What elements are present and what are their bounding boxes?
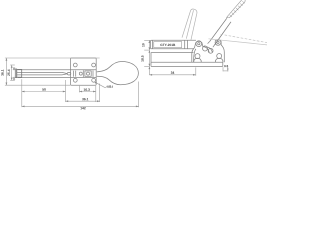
dim line 50 and 16.3: [22, 91, 66, 93]
handle shaft upper edge: [210, 19, 227, 42]
arm outer edge top: [18, 69, 97, 71]
arrowheads right view: [149, 40, 151, 43]
base left edge: [150, 53, 152, 67]
toggle link rivet right: [208, 48, 213, 53]
ext line 16.3 left: [78, 86, 80, 93]
foot arc right: [215, 58, 223, 62]
right view dim: ext tick arm top: [144, 39, 150, 41]
dim ext line bottom (plate bottom to left dim): [5, 84, 71, 86]
pivot rivet left: [79, 72, 82, 75]
foot hole right: [217, 54, 222, 59]
foot hole left: [195, 54, 200, 59]
side plate top contour left: [196, 41, 206, 47]
ext line 36.1 right (grip neck): [99, 84, 101, 103]
dim text 36.1 horizontal: [82, 98, 88, 100]
arm left end double line: [151, 40, 153, 49]
ext line 142 right: [138, 82, 140, 108]
handle shaft lower edge: [214, 22, 231, 45]
foot arc left: [194, 58, 202, 62]
phantom arm inner line: [186, 10, 193, 39]
label plate on arm: [154, 42, 182, 48]
ext line 16.3 right: [95, 86, 97, 102]
arm left end washer: [15, 69, 16, 78]
pivot hole top-right: [215, 40, 221, 46]
pivot rivet right: [87, 72, 90, 75]
base flange top line: [151, 52, 194, 54]
ext tick for 25.4 top: [10, 64, 15, 66]
slot end eye: [67, 72, 71, 75]
phantom arm up (open position): [182, 9, 197, 40]
pivot pin top-right: [217, 41, 219, 43]
grip ribs: [230, 1, 245, 17]
hole callout 4-dia5.4: [106, 85, 112, 87]
arm left end nut: [17, 69, 22, 77]
dim text 18.5 vertical: [141, 56, 143, 62]
phantom handle edge 1: [209, 39, 268, 45]
base plate (top view): [71, 58, 97, 85]
ext line 50 right / 36.1 left: [65, 80, 67, 102]
arrowheads left view: [6, 58, 8, 61]
arm outer edge bottom: [18, 77, 97, 79]
handle grip (top view oval): [97, 62, 139, 85]
right view vertical dim line + 34 dim line: [149, 40, 195, 75]
toggle link band: [203, 47, 212, 53]
vertical dim 25.4 line: [11, 65, 13, 80]
vertical dim 36.1 line: [5, 58, 7, 85]
mounting hole top-right: [92, 63, 96, 67]
ext tick bar width bottom: [13, 77, 16, 79]
phantom handle edge 2 dashed: [221, 34, 268, 42]
dim text 142: [80, 107, 85, 109]
dim line 16.3: [79, 91, 95, 93]
arm slot line top: [17, 72, 68, 73]
dim 34: ext right: [195, 67, 197, 75]
base right edge: [222, 62, 224, 66]
leader 4-d5.4: [94, 82, 106, 88]
pivot pin lines: [82, 70, 84, 77]
cross pin left pair: [73, 71, 75, 77]
dim text 10 vertical: [142, 43, 144, 46]
mounting hole top-left: [73, 63, 77, 67]
dim text 25.4 vertical: [8, 70, 10, 76]
handle grip: [226, 0, 245, 19]
dim text 50: [42, 88, 45, 90]
dim ext line top (plate top to left dim): [5, 57, 100, 59]
dim text 16.3: [84, 89, 90, 91]
mounting hole bottom-right: [92, 78, 96, 82]
side plate right edge: [221, 41, 224, 62]
base plate bottom: [151, 65, 223, 67]
dim line 36.1 horizontal: [66, 100, 100, 102]
right view dim: ext tick mid: [144, 49, 149, 51]
spring block: [85, 71, 91, 76]
base plate top: [151, 61, 223, 63]
ext line 50 left: [21, 79, 23, 107]
dim text 9.5: [224, 65, 228, 67]
mounting hole bottom-left: [73, 78, 77, 82]
dim text 34: [171, 72, 175, 74]
small dim right: vertical: [227, 67, 229, 71]
ext tick bar width top: [13, 68, 16, 70]
ext tick for 25.4 bottom: [10, 79, 15, 81]
pivot pin top-left: [198, 43, 200, 45]
small dim right: tick: [223, 70, 228, 72]
model label text: [160, 44, 175, 46]
dim line 142: [22, 105, 139, 107]
handle shaft bottom joint: [208, 41, 215, 47]
arm (side view, horizontal closed position): [150, 40, 196, 49]
pivot hole top-left: [196, 41, 202, 47]
side plate left edge: [192, 43, 196, 63]
arm slot line bottom: [17, 74, 68, 75]
arm right segment lines: [184, 40, 186, 49]
dim text 36.1 vertical: [1, 70, 3, 76]
phantom open position lines: [182, 9, 267, 45]
toggle link rivet left: [203, 46, 208, 51]
small dim right: ext down: [222, 67, 224, 71]
side plate top contour right: [215, 40, 221, 41]
